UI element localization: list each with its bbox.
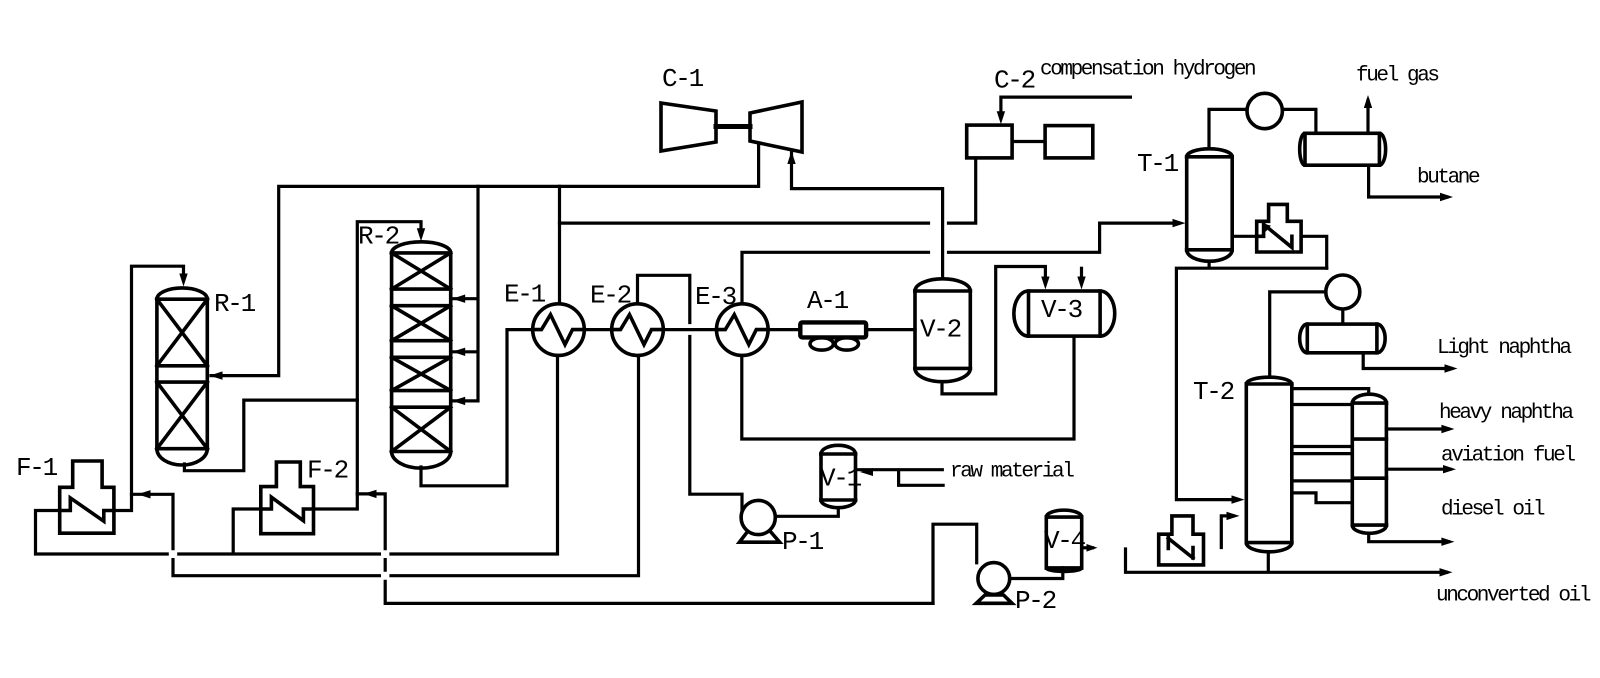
- reactor R-2: [392, 242, 451, 468]
- wire: make-up hydrogen header from C-2 to E-1 riser: [560, 158, 976, 223]
- arrow: butane: [1440, 193, 1453, 201]
- T-2 overhead condenser: [1326, 275, 1360, 309]
- heat exchanger E-3: [717, 304, 769, 356]
- svg-text:E-3: E-3: [695, 282, 736, 312]
- svg-text:E-1: E-1: [504, 280, 546, 310]
- svg-text:C-1: C-1: [662, 64, 704, 94]
- wire: E-3 shell outlet to T-1 feed: [742, 223, 1178, 304]
- separator V-2: [915, 279, 970, 382]
- svg-text:F-2: F-2: [307, 456, 348, 486]
- wire: T-2 to stripper lower draw: [1292, 479, 1353, 482]
- arrow: into V-3 nozzle 1: [1041, 277, 1049, 290]
- svg-text:V-3: V-3: [1041, 295, 1082, 325]
- wire: V-4 vent stub: [1082, 546, 1093, 549]
- arrow: quench into R-2 bed gap 2: [452, 348, 465, 356]
- wire: reboiler outlet down to bottoms: [1292, 236, 1327, 268]
- svg-text:heavy naphtha: heavy naphtha: [1439, 402, 1573, 425]
- arrow: unconverted oil product: [1440, 568, 1453, 576]
- arrow: feed into R-1: [179, 274, 187, 287]
- svg-text:F-1: F-1: [16, 453, 58, 483]
- svg-text:C-2: C-2: [994, 66, 1035, 96]
- wire: compensation hydrogen inlet to C-2: [1001, 97, 1131, 117]
- wire: fuel gas offtake: [1366, 101, 1369, 134]
- wire: C-1 discharge to recycle/quench header: [211, 143, 759, 376]
- T-2 reflux drum: [1300, 324, 1385, 353]
- wire: T-2 to stripper pair line a: [1292, 445, 1353, 448]
- furnace F-2: [261, 462, 314, 534]
- wire: E-1 top riser from header: [558, 186, 561, 304]
- wire: E-1 bottoms header to F-1 and F-2 inlets: [36, 354, 558, 554]
- arrow: feed into T-1: [1173, 219, 1186, 227]
- arrow: into C-2 first stage: [997, 111, 1005, 124]
- reactor R-1: [157, 288, 207, 465]
- T-1 overhead condenser: [1247, 93, 1282, 128]
- wire: diesel oil product from stripper bottoms: [1369, 533, 1449, 542]
- wire: T-2 to stripper pair line b: [1292, 452, 1353, 455]
- svg-text:butane: butane: [1417, 167, 1480, 190]
- arrow: quench into R-1: [210, 371, 223, 379]
- T-1 reflux drum: [1300, 133, 1386, 165]
- wire: V-2 overhead to C-1 suction: [792, 153, 943, 279]
- arrow: reboiler return into T-2: [1227, 512, 1240, 520]
- svg-text:P-1: P-1: [782, 527, 824, 557]
- wire: branch from F-1 outlet junction to E-2 bottoms header: [132, 354, 639, 575]
- arrow: light naphtha: [1445, 364, 1458, 372]
- heat exchanger E-2: [612, 304, 664, 356]
- svg-text:unconverted oil: unconverted oil: [1436, 585, 1591, 608]
- arrow: V-4 vent: [1087, 544, 1098, 552]
- separator V-3: [1014, 291, 1115, 336]
- wire: raw material bypass over E-2 (P-1 discharge riser): [638, 275, 743, 514]
- arrow: diesel oil: [1441, 538, 1454, 546]
- arrow: raw material into V-1: [860, 468, 873, 476]
- compressor C-1: [661, 102, 802, 152]
- arrow: heavy naphtha: [1441, 425, 1454, 433]
- wire: F-1 outlet riser to R-1 feed: [114, 266, 184, 510]
- wire: butane product from drum: [1369, 165, 1447, 197]
- fractionator T-2: [1246, 377, 1292, 552]
- wire: R-2 bottoms to E-1 and exchanger train main line: [421, 330, 915, 486]
- wire: T-1 bottoms to T-2 feed: [1176, 261, 1326, 500]
- wire: P-2 discharge to V-4: [1010, 568, 1063, 579]
- wire: R-1 bottoms to R-2 feed riser: [184, 400, 357, 471]
- svg-text:V-2: V-2: [920, 315, 961, 345]
- stabilizer tower T-1: [1187, 149, 1233, 261]
- make-up compressor C-2: [967, 125, 1093, 158]
- svg-text:aviation fuel: aviation fuel: [1441, 445, 1575, 468]
- arrow: quench into R-2 bed gap 1: [452, 295, 465, 303]
- wire: T-2 to stripper upper draw: [1292, 403, 1353, 406]
- wire: P-2 suction riser: [933, 524, 977, 603]
- feed drum V-1: [821, 445, 856, 507]
- arrow: fuel gas: [1364, 95, 1372, 108]
- wire: T-2 vapor to side stripper top: [1292, 389, 1369, 394]
- wire: T-1 overhead to condenser and reflux drum: [1209, 109, 1316, 148]
- side stripper column: [1352, 394, 1386, 533]
- wire: unconverted oil run from T-2 bottoms: [1126, 549, 1447, 573]
- svg-text:A-1: A-1: [807, 286, 849, 316]
- wire: P-1 suction from V-1: [775, 508, 838, 517]
- wire: C-2 interstage line: [1012, 140, 1045, 143]
- arrow: on F-2 outlet branch: [364, 490, 377, 498]
- svg-text:compensation hydrogen: compensation hydrogen: [1040, 59, 1255, 82]
- wire: F-2 outlet riser to R-2 feed: [314, 222, 422, 509]
- wire: R-2 quench drop line: [451, 186, 478, 401]
- pump P-2: [976, 563, 1012, 604]
- heat exchanger E-1: [533, 304, 585, 356]
- svg-text:R-1: R-1: [214, 289, 256, 319]
- arrow: into C-1 suction: [787, 151, 795, 164]
- wire: V-3 bottoms to E-3 cold side: [742, 336, 1074, 439]
- wire: T-2 reboiler return: [1221, 516, 1232, 548]
- wire: T-1 to reboiler: [1232, 235, 1257, 238]
- arrow: T-1 bottoms into T-2: [1232, 495, 1245, 503]
- arrow: quench into R-2 bed gap 3: [452, 397, 465, 405]
- wire: branch from F-2 outlet junction down to bottoms header: [357, 494, 933, 604]
- pump P-1: [739, 500, 779, 542]
- arrow: on F-1 outlet branch: [138, 490, 151, 498]
- furnace F-1: [60, 461, 114, 533]
- wire: raw material inlet to V-1: [856, 470, 944, 486]
- svg-text:P-2: P-2: [1015, 586, 1056, 616]
- wire: light naphtha from drum: [1363, 353, 1451, 369]
- T-2 reboiler: [1159, 516, 1204, 565]
- arrow: into V-3 nozzle 2: [1077, 277, 1085, 290]
- wire: aviation fuel product: [1386, 468, 1450, 471]
- wire: heavy naphtha product: [1386, 427, 1448, 430]
- T-1 reboiler: [1257, 204, 1301, 252]
- wire: T-2 overhead to condenser: [1270, 292, 1343, 378]
- svg-text:V-1: V-1: [820, 464, 862, 494]
- svg-text:fuel gas: fuel gas: [1356, 65, 1438, 88]
- svg-text:R-2: R-2: [358, 222, 399, 252]
- svg-text:E-2: E-2: [590, 281, 631, 311]
- arrow: aviation fuel: [1443, 465, 1456, 473]
- svg-text:V-4: V-4: [1044, 526, 1086, 556]
- svg-text:T-1: T-1: [1137, 149, 1179, 179]
- svg-text:T-2: T-2: [1193, 377, 1234, 407]
- wire: V-2 bottoms to V-3: [942, 267, 1045, 394]
- svg-text:raw material: raw material: [950, 461, 1074, 484]
- wire: T-2 to stripper stepped draw: [1292, 493, 1353, 503]
- air cooler A-1: [800, 322, 866, 350]
- drum V-4: [1046, 510, 1081, 571]
- wire: wash water stub into V-3: [1080, 268, 1083, 282]
- svg-text:Light naphtha: Light naphtha: [1437, 337, 1571, 360]
- arrow: feed into R-2: [417, 228, 425, 241]
- svg-text:diesel oil: diesel oil: [1441, 499, 1545, 522]
